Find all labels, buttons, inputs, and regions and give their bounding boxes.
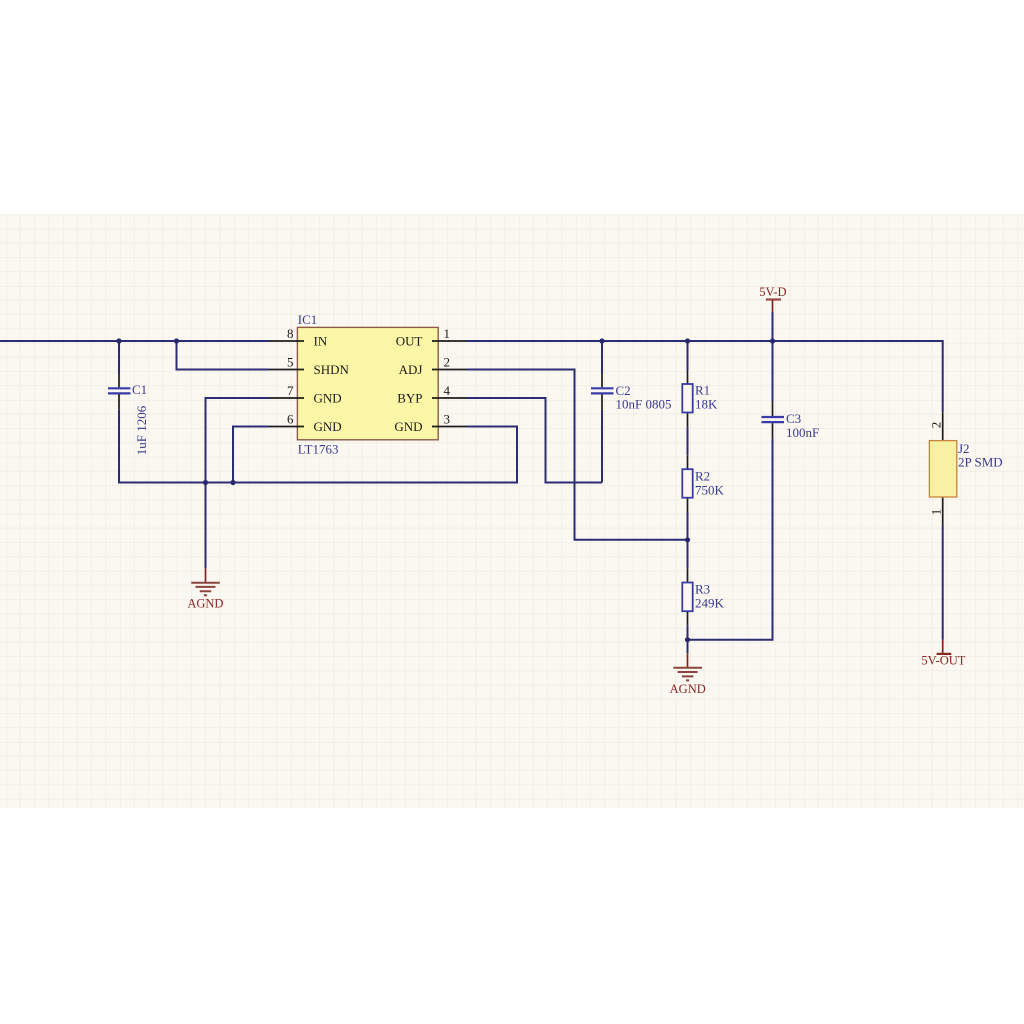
node junction R1/main (685, 338, 690, 343)
power port 5V-OUT stub (942, 640, 944, 653)
connector J2 pin 1 line (942, 497, 944, 526)
wire C1 top (118, 340, 120, 374)
svg-text:1: 1 (928, 509, 943, 516)
wire GND bottom bus (119, 427, 517, 483)
svg-text:2: 2 (444, 355, 451, 370)
resistor R3 (682, 583, 692, 612)
svg-text:5V-D: 5V-D (759, 285, 786, 299)
wire C2 bottom (601, 410, 603, 483)
node junction pin6/gnd bus (230, 480, 235, 485)
wire R3-C3 bottom bus (688, 438, 773, 639)
svg-text:IC1: IC1 (298, 312, 318, 327)
node junction 5V-D/main (770, 338, 775, 343)
wire 5V-D drop (772, 312, 774, 341)
wire GND pin7 (206, 398, 270, 483)
pin 8 (269, 340, 304, 342)
svg-text:8: 8 (287, 326, 294, 341)
svg-text:AGND: AGND (670, 682, 706, 696)
svg-text:7: 7 (287, 383, 294, 398)
svg-text:C3: C3 (786, 411, 801, 426)
resistor R2 (682, 469, 692, 498)
svg-text:2: 2 (928, 422, 943, 429)
wire OUT net horizontal to J2 drop (467, 341, 943, 412)
svg-text:3: 3 (444, 412, 451, 427)
capacitor C3 pins (772, 402, 774, 438)
power port 5V-D stub (772, 300, 774, 312)
ground AGND2 bars (673, 668, 702, 681)
svg-text:GND: GND (394, 419, 422, 434)
wire AGND2 drop (687, 640, 689, 654)
node junction pin7/gnd bus (203, 480, 208, 485)
svg-text:GND: GND (314, 419, 342, 434)
svg-text:10nF 0805: 10nF 0805 (616, 397, 672, 412)
svg-text:R2: R2 (695, 469, 710, 484)
wire BYP net (467, 398, 603, 483)
pin 5 (269, 369, 304, 371)
resistor R1 pins (687, 370, 689, 427)
wire GND pin6 (233, 427, 269, 483)
pin 2 (432, 369, 467, 371)
resistor R1 (682, 384, 692, 413)
resistor R3 pins (687, 568, 689, 625)
wire R2-R3 (687, 512, 689, 568)
svg-text:ADJ: ADJ (399, 362, 423, 377)
node junction R3/C3/AGND2 (685, 637, 690, 642)
wire SHDN net (177, 340, 270, 370)
svg-text:4: 4 (444, 383, 451, 398)
resistor R2 pins (687, 455, 689, 512)
op-amp IC1 body (297, 327, 438, 439)
svg-text:GND: GND (314, 391, 342, 406)
svg-text:1: 1 (444, 326, 451, 341)
svg-text:BYP: BYP (397, 391, 422, 406)
pin 4 (432, 397, 467, 399)
wire C2 top (601, 340, 603, 374)
node junction SHDN/main (174, 338, 179, 343)
pin 7 (269, 397, 304, 399)
svg-text:IN: IN (314, 334, 328, 349)
capacitor C1 plates (108, 388, 131, 393)
schematic sheet background (0, 214, 1024, 808)
capacitor C2 pins (601, 374, 603, 410)
svg-text:5V-OUT: 5V-OUT (921, 654, 965, 668)
capacitor C2 plates (591, 388, 614, 393)
wire C1 bottom (118, 410, 120, 484)
capacitor C3 plates (762, 417, 785, 422)
wire ADJ net (467, 370, 688, 540)
ground AGND1 bars (191, 583, 220, 596)
svg-text:LT1763: LT1763 (298, 442, 339, 457)
wire R3 bottom (687, 625, 689, 639)
wire AGND1 drop (205, 483, 207, 569)
ground AGND1 stub (205, 568, 207, 583)
power port 5V-D bar (766, 298, 781, 300)
svg-text:2P SMD: 2P SMD (958, 454, 1003, 469)
wire R1 top (687, 340, 689, 370)
connector J2 body (929, 441, 956, 497)
svg-text:AGND: AGND (187, 597, 223, 611)
svg-text:SHDN: SHDN (314, 362, 350, 377)
connector J2 pin 2 line (942, 412, 944, 440)
svg-text:OUT: OUT (396, 334, 423, 349)
pin 1 (432, 340, 467, 342)
svg-text:R3: R3 (695, 582, 710, 597)
wire main IN net horizontal left (0, 340, 269, 342)
pin 3 (432, 426, 467, 428)
svg-text:5: 5 (287, 355, 294, 370)
svg-text:100nF: 100nF (786, 425, 819, 440)
wire C3 top (772, 340, 774, 402)
node junction C1/main (116, 338, 121, 343)
svg-text:249K: 249K (695, 596, 725, 611)
node junction C2/main (599, 338, 604, 343)
ground AGND2 stub (687, 653, 689, 668)
capacitor C1 pins (118, 374, 120, 410)
svg-text:6: 6 (287, 412, 294, 427)
node junction ADJ/R2/R3 (685, 537, 690, 542)
wire J2 pin1 to 5V-OUT (942, 526, 944, 640)
wire R1-R2 (687, 427, 689, 456)
svg-text:C1: C1 (132, 382, 147, 397)
svg-text:1uF 1206: 1uF 1206 (134, 405, 149, 455)
pin 6 (269, 426, 304, 428)
svg-text:750K: 750K (695, 483, 725, 498)
svg-text:R1: R1 (695, 383, 710, 398)
svg-text:18K: 18K (695, 397, 718, 412)
power port 5V-OUT bar (937, 653, 952, 655)
